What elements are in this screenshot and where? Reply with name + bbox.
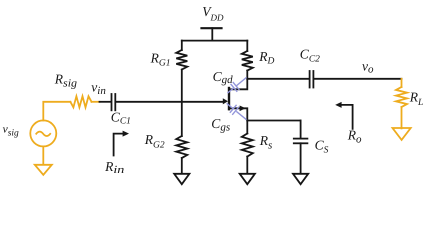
ground (240, 174, 255, 184)
svg-text:Cgd: Cgd (213, 69, 234, 86)
capacitor CS (294, 138, 308, 140)
svg-text:Rsig: Rsig (54, 72, 78, 90)
svg-text:RG1: RG1 (150, 50, 171, 68)
wire (300, 143, 302, 173)
wire (92, 101, 100, 103)
resistor Rsig (70, 96, 91, 107)
load RL (yellow) (393, 79, 411, 140)
capacitor CC2 (309, 71, 311, 88)
wire (246, 41, 248, 51)
svg-text:vsig: vsig (3, 124, 19, 139)
wire (116, 101, 223, 103)
svg-text:Rs: Rs (259, 133, 273, 151)
svg-text:CC2: CC2 (300, 47, 320, 65)
sine wave (36, 132, 50, 136)
svg-text:RL: RL (409, 90, 424, 108)
svg-text:CS: CS (315, 137, 329, 155)
svg-text:Cgs: Cgs (211, 116, 230, 133)
Rin arrow (114, 134, 125, 156)
source lead (230, 108, 248, 120)
resistor RD (242, 51, 253, 71)
wire (246, 157, 248, 174)
wire (401, 79, 403, 87)
source node wire (247, 120, 300, 122)
capacitor Cgd (blue) (228, 78, 246, 93)
source Vsig (30, 96, 99, 175)
wire (181, 41, 183, 50)
drain lead (230, 79, 248, 90)
channel bar (228, 88, 230, 109)
output wire (247, 78, 308, 80)
capacitor Cgs (blue) (227, 104, 247, 121)
svg-text:VDD: VDD (202, 4, 224, 23)
ground (174, 174, 189, 184)
wire (246, 121, 248, 134)
VDD supply (202, 27, 222, 29)
ground (yellow) (393, 128, 411, 140)
source circle (30, 120, 56, 146)
svg-text:RD: RD (258, 49, 274, 67)
svg-text:vo: vo (362, 58, 374, 75)
wire (401, 107, 403, 128)
resistor Rs (242, 134, 253, 157)
svg-text:CC1: CC1 (111, 109, 131, 126)
Ro arrow (341, 105, 353, 129)
resistor RG2 (176, 136, 187, 158)
svg-text:Ro: Ro (347, 128, 362, 146)
source arrowhead (240, 106, 246, 112)
resistor RG1 (176, 50, 187, 70)
capacitor CC1 (111, 94, 113, 110)
top rail wire (182, 40, 248, 42)
svg-text:RG2: RG2 (144, 132, 165, 150)
gate arrowhead (223, 98, 228, 104)
wire (43, 102, 70, 121)
wire (246, 71, 248, 79)
wire (314, 78, 401, 80)
wire (42, 146, 44, 164)
resistor RL (396, 87, 407, 107)
svg-text:vin: vin (91, 80, 106, 97)
ground (yellow) (35, 165, 52, 175)
wire vin to gate (100, 101, 111, 103)
wire (300, 121, 302, 138)
svg-text:Rin: Rin (104, 159, 125, 176)
wire (181, 70, 183, 137)
ground (293, 174, 308, 184)
wire (181, 158, 183, 174)
